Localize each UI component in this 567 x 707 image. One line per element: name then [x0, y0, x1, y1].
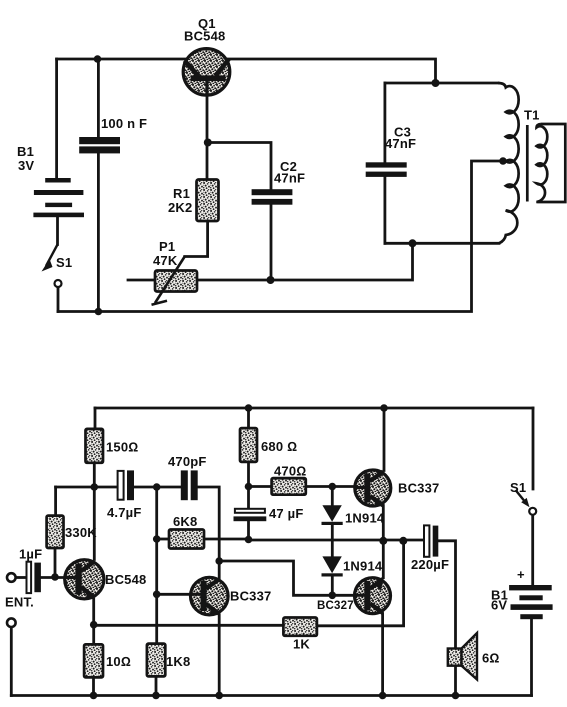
svg-text:4.7µF: 4.7µF: [107, 505, 142, 520]
svg-text:B1: B1: [17, 144, 34, 159]
svg-text:10Ω: 10Ω: [106, 654, 131, 669]
svg-text:47K: 47K: [153, 253, 178, 268]
svg-text:680 Ω: 680 Ω: [261, 439, 297, 454]
svg-text:R1: R1: [173, 186, 190, 201]
svg-text:S1: S1: [510, 480, 526, 495]
svg-text:T1: T1: [524, 108, 540, 123]
svg-text:BC548: BC548: [105, 572, 146, 587]
svg-text:150Ω: 150Ω: [106, 440, 138, 455]
svg-text:BC337: BC337: [398, 481, 439, 496]
svg-text:47nF: 47nF: [274, 171, 305, 186]
svg-text:P1: P1: [159, 239, 175, 254]
svg-text:6Ω: 6Ω: [482, 651, 500, 666]
svg-text:BC548: BC548: [184, 29, 225, 44]
svg-text:470Ω: 470Ω: [274, 464, 306, 479]
svg-text:BC327: BC327: [317, 600, 354, 612]
svg-text:6K8: 6K8: [173, 514, 197, 529]
svg-text:1K8: 1K8: [166, 654, 190, 669]
svg-text:220µF: 220µF: [411, 557, 449, 572]
svg-text:BC337: BC337: [230, 589, 271, 604]
svg-text:47nF: 47nF: [385, 136, 416, 151]
svg-text:1µF: 1µF: [19, 547, 42, 562]
svg-text:ENT.: ENT.: [5, 595, 34, 610]
svg-text:+: +: [517, 567, 525, 582]
svg-text:47 µF: 47 µF: [269, 506, 304, 521]
svg-text:330K: 330K: [65, 525, 97, 540]
svg-text:S1: S1: [56, 255, 72, 270]
svg-text:6V: 6V: [491, 598, 507, 613]
svg-text:3V: 3V: [18, 158, 34, 173]
svg-text:470pF: 470pF: [168, 454, 207, 469]
svg-text:2K2: 2K2: [168, 200, 192, 215]
svg-text:100 n F: 100 n F: [101, 116, 147, 131]
svg-text:1N914: 1N914: [345, 511, 385, 526]
svg-text:1N914: 1N914: [343, 559, 383, 574]
svg-text:1K: 1K: [293, 637, 310, 652]
